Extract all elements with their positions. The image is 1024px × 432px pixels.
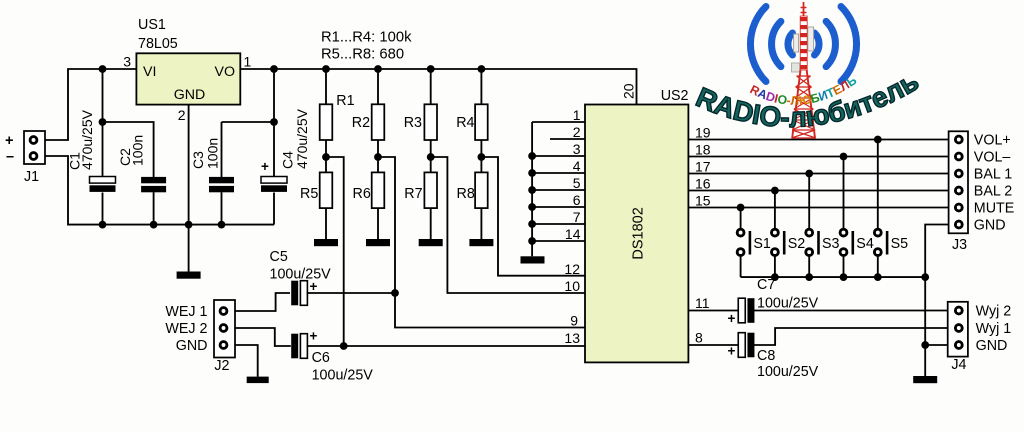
junction: S3 tap — [805, 170, 813, 178]
wire: R2 to R6 — [377, 140, 379, 172]
wire: US2 pin 7 to ground bus — [532, 223, 585, 225]
capacitor C3 100n — [209, 177, 234, 183]
ground symbol (main) — [177, 272, 201, 279]
ground symbol (output side) — [913, 376, 937, 383]
capacitor C2 100n — [141, 177, 166, 183]
wire: S5 to bottom bus — [877, 256, 879, 277]
junction: R4 top on rail — [478, 65, 486, 73]
wire: C4 branch — [273, 69, 275, 177]
junction: pin joins ground bus — [528, 237, 536, 245]
wire: C7 to J4 Wyj 2 — [754, 310, 950, 312]
svg-text:+: + — [261, 159, 269, 174]
svg-text:R2: R2 — [352, 115, 370, 131]
svg-text:8: 8 — [695, 330, 703, 346]
svg-text:15: 15 — [695, 192, 711, 208]
wire: J3 GND down — [925, 225, 948, 377]
resistor R5 680 — [320, 172, 333, 208]
svg-text:C7: C7 — [757, 277, 775, 293]
wire: US2 pin 14 to ground bus — [532, 240, 585, 242]
svg-text:1: 1 — [244, 54, 252, 70]
svg-text:BAL 2: BAL 2 — [974, 184, 1012, 200]
svg-text:18: 18 — [695, 141, 711, 157]
wire: S2 to bottom bus — [774, 256, 776, 277]
svg-text:R4: R4 — [456, 115, 474, 131]
wire: R7 to ground — [430, 208, 432, 239]
junction: pin joins ground bus — [528, 186, 536, 194]
svg-text:7: 7 — [573, 209, 581, 225]
svg-text:J1: J1 — [24, 169, 39, 185]
ground symbol under R7 — [419, 239, 443, 246]
connector J1 — [5, 131, 45, 185]
capacitor C5 (electrolytic) — [291, 281, 298, 306]
ground symbol under R6 — [366, 239, 390, 246]
svg-text:+: + — [310, 329, 318, 344]
wire: US2 pin 4 to ground bus — [532, 172, 585, 174]
svg-text:GND: GND — [174, 87, 206, 103]
wire: J1 - to bottom ground rail — [45, 156, 274, 225]
svg-text:100u/25V: 100u/25V — [312, 368, 374, 384]
junction: switch bus — [805, 273, 813, 281]
svg-text:J4: J4 — [951, 357, 966, 373]
svg-text:VOL+: VOL+ — [974, 133, 1011, 149]
wire: S5 to pin line — [877, 140, 879, 230]
svg-text:+: + — [5, 133, 13, 149]
junction: switch bus — [840, 273, 848, 281]
svg-text:S5: S5 — [891, 236, 909, 252]
junction: C1 bottom — [99, 221, 107, 229]
svg-text:R1...R4: 100k: R1...R4: 100k — [321, 30, 412, 46]
svg-text:14: 14 — [565, 226, 581, 242]
svg-text:16: 16 — [695, 175, 711, 191]
junction: pin joins ground bus — [528, 220, 536, 228]
switch S2 — [772, 229, 806, 255]
junction: divider node R4/R8 — [478, 153, 486, 161]
wire: C6 to US2 pin 13 — [307, 345, 585, 347]
wire: C5 to R2 tap node — [307, 292, 395, 294]
svg-text:DS1802: DS1802 — [631, 207, 647, 259]
wire: US2 pin 15 to J3 — [688, 207, 950, 209]
junction: pin joins ground bus — [528, 152, 536, 160]
resistor R3 100k — [424, 104, 437, 140]
IC US2 DS1802 — [585, 105, 688, 363]
junction: C2 tap on C1 branch — [99, 118, 107, 126]
svg-text:11: 11 — [695, 295, 710, 311]
svg-text:470u/25V: 470u/25V — [79, 109, 95, 170]
svg-text:1: 1 — [573, 107, 581, 123]
junction: R1 top on rail — [322, 65, 330, 73]
wire: rail to R2 — [377, 69, 379, 104]
wire: J2 WEJ2 to C6 — [235, 328, 291, 346]
svg-text:US2: US2 — [661, 88, 689, 104]
junction: GND pin at ground rail — [185, 221, 193, 229]
wire: R4/R8 node to US2 pin 12 — [481, 157, 585, 276]
svg-text:3: 3 — [123, 54, 131, 70]
wire: US2 pin 16 to J3 — [688, 190, 950, 192]
wire: J4 GND to ground line — [925, 344, 948, 346]
wire: S4 to bottom bus — [843, 256, 845, 277]
switch S5 — [874, 229, 908, 255]
wire: R4 to R8 — [480, 140, 482, 172]
svg-text:R7: R7 — [404, 186, 422, 202]
wire: C1 branch — [102, 69, 104, 177]
wire: US1 GND pin 2 down to ground rail — [188, 105, 190, 225]
svg-text:100u/25V: 100u/25V — [270, 267, 332, 283]
junction: C3 bottom — [218, 221, 226, 229]
svg-text:R5: R5 — [300, 186, 318, 202]
svg-text:13: 13 — [564, 330, 580, 346]
wire: R5 to ground — [325, 208, 327, 239]
svg-text:VI: VI — [143, 64, 156, 80]
junction: S1 tap — [737, 204, 745, 212]
svg-text:R8: R8 — [457, 186, 475, 202]
wire: R3 to R7 — [430, 140, 432, 172]
junction: S2 tap — [771, 187, 779, 195]
ground symbol under R8 — [469, 239, 493, 246]
wire: US1 VO to US2 pin 20 (top rail) — [240, 69, 636, 105]
svg-text:Wyj 2: Wyj 2 — [976, 304, 1012, 320]
wire: R8 to ground — [480, 208, 482, 239]
wire: J1 + to US1 VI (top-left rail) — [45, 69, 136, 140]
svg-text:Wyj 1: Wyj 1 — [976, 321, 1012, 337]
wire: US2 pin 1 to ground bus — [532, 121, 585, 123]
resistor R1 100k — [320, 104, 333, 140]
ground symbol (US2 pin bus) — [521, 256, 545, 263]
logo radio waves right — [815, 7, 857, 82]
capacitor C7 (electrolytic) — [747, 298, 754, 323]
resistor R7 680 — [424, 172, 437, 208]
junction: switch bus to GND line — [921, 273, 929, 281]
svg-text:2: 2 — [178, 107, 186, 123]
connector J4 — [948, 302, 1012, 373]
svg-text:WEJ 1: WEJ 1 — [165, 304, 207, 320]
svg-text:S1: S1 — [753, 236, 771, 252]
junction: C4 top on rail — [270, 65, 278, 73]
wire: US2 pin 2 stub (n.c.) — [550, 138, 585, 140]
resistor R2 100k — [372, 104, 385, 140]
wire: R1 to R5 — [325, 140, 327, 172]
svg-text:C8: C8 — [757, 348, 775, 364]
wire: rail to R3 — [430, 69, 432, 104]
junction: divider node R2/R6 — [374, 153, 382, 161]
wire: US2 pin 11 to C7 — [688, 310, 739, 312]
svg-text:100n: 100n — [204, 138, 220, 169]
junction: divider node R1/R5 — [322, 153, 330, 161]
svg-text:VOL–: VOL– — [974, 150, 1011, 166]
svg-text:US1: US1 — [138, 17, 166, 33]
wire: S4 to pin line — [843, 157, 845, 230]
wire: US2 pin 3 to ground bus — [532, 155, 585, 157]
wire: R6 to ground — [377, 208, 379, 239]
svg-text:6: 6 — [573, 192, 581, 208]
junction: pin joins ground bus — [528, 203, 536, 211]
svg-text:–: – — [6, 149, 14, 165]
svg-text:3: 3 — [573, 141, 581, 157]
switch S4 — [840, 229, 874, 255]
junction: C1 top on rail — [99, 65, 107, 73]
wire: ground rail to ground symbol — [188, 225, 190, 272]
junction: pin joins ground bus — [528, 169, 536, 177]
svg-text:2: 2 — [573, 124, 581, 140]
wire: C8 to J4 Wyj 1 — [754, 328, 950, 345]
svg-text:S2: S2 — [788, 236, 806, 252]
junction: switch bus — [771, 273, 779, 281]
svg-text:GND: GND — [974, 218, 1006, 234]
svg-text:GND: GND — [176, 338, 208, 354]
junction: J4 GND joins — [921, 341, 929, 349]
svg-text:MUTE: MUTE — [974, 201, 1015, 217]
svg-text:C5: C5 — [270, 249, 288, 265]
resistor R4 100k — [475, 104, 488, 140]
svg-text:9: 9 — [570, 313, 578, 329]
junction: R3 top on rail — [427, 65, 435, 73]
junction: S4 tap — [840, 153, 848, 161]
svg-text:100n: 100n — [130, 135, 146, 166]
svg-text:470u/25V: 470u/25V — [294, 108, 310, 169]
svg-text:C6: C6 — [312, 350, 330, 366]
wire: US2 pin 6 to ground bus — [532, 206, 585, 208]
junction: R1 tap joins C6/pin13 wire — [340, 342, 348, 350]
wire: S3 to bottom bus — [808, 256, 810, 277]
wire: S1 to pin line — [740, 208, 742, 230]
wire: S3 to pin line — [808, 174, 810, 230]
svg-text:R6: R6 — [353, 186, 371, 202]
capacitor C1 (electrolytic) — [90, 177, 116, 184]
svg-text:WEJ 2: WEJ 2 — [165, 321, 207, 337]
junction: switch bus — [874, 273, 882, 281]
junction: C2 bottom — [150, 221, 158, 229]
svg-text:20: 20 — [621, 83, 637, 99]
svg-text:+: + — [728, 311, 736, 326]
wire: US2 pin 17 to J3 — [688, 173, 950, 175]
wire: S1 to bottom bus — [740, 256, 742, 277]
svg-text:17: 17 — [695, 158, 711, 174]
svg-text:4: 4 — [573, 158, 581, 174]
capacitor C8 (electrolytic) — [747, 333, 754, 358]
svg-text:10: 10 — [564, 278, 580, 294]
wire: R3/R7 node to US2 pin 10 — [431, 157, 585, 293]
resistor R8 680 — [475, 172, 488, 208]
switch S1 — [737, 229, 771, 255]
svg-text:78L05: 78L05 — [138, 36, 178, 52]
wire: R1/R5 node to pin 13 line — [326, 157, 344, 346]
svg-text:+: + — [728, 344, 736, 359]
junction: S5 tap — [874, 136, 882, 144]
svg-text:J3: J3 — [952, 237, 967, 253]
svg-text:S3: S3 — [822, 236, 840, 252]
wire: S2 to pin line — [774, 191, 776, 230]
svg-text:J2: J2 — [214, 358, 229, 374]
wire: US2 pin 19 to J3 — [688, 139, 950, 141]
capacitor C6 (electrolytic) — [291, 334, 298, 359]
voltage regulator US1 78L05 — [136, 17, 240, 105]
wire: rail to R4 — [480, 69, 482, 104]
junction: divider node R3/R7 — [427, 153, 435, 161]
svg-text:100u/25V: 100u/25V — [757, 296, 819, 312]
svg-text:5: 5 — [573, 175, 581, 191]
connector J2 — [165, 300, 235, 374]
wire: C3 branch — [222, 121, 275, 123]
junction: R2 top on rail — [374, 65, 382, 73]
capacitor C4 (electrolytic) — [261, 177, 287, 184]
wire: J2 WEJ1 to C5 — [235, 293, 290, 311]
wire: R2/R6 node to US2 pin 9 — [378, 157, 585, 328]
logo small arc text RADIO-ЛЮБИТЕЛЬ — [748, 73, 862, 108]
svg-text:100u/25V: 100u/25V — [757, 364, 819, 380]
logo radio tower — [792, 2, 816, 138]
wire: ground bus for US2 input pins — [531, 122, 533, 256]
svg-text:R1: R1 — [336, 93, 354, 109]
connector J3 — [949, 131, 1015, 253]
junction: C5 wire joins R2 tap — [391, 289, 399, 297]
svg-text:GND: GND — [976, 338, 1008, 354]
svg-text:VO: VO — [215, 64, 236, 80]
svg-text:R5...R8: 680: R5...R8: 680 — [321, 47, 404, 63]
svg-text:S4: S4 — [856, 236, 874, 252]
svg-text:BAL 1: BAL 1 — [974, 167, 1012, 183]
ground symbol (J2) — [247, 377, 269, 384]
svg-text:19: 19 — [695, 124, 711, 140]
resistor R6 680 — [372, 172, 385, 208]
wire: rail to R1 — [325, 69, 327, 104]
ground symbol under R5 — [314, 239, 338, 246]
wire: US2 pin 8 to C8 — [688, 344, 739, 346]
wire: J2 GND to ground — [235, 345, 258, 377]
wire: US2 pin 18 to J3 — [688, 156, 950, 158]
logo radio waves left — [750, 7, 792, 82]
wire: switch bottom bus — [741, 276, 926, 278]
wire: US2 pin 5 to ground bus — [532, 189, 585, 191]
wire: C2 branch — [103, 122, 154, 177]
switch S3 — [806, 229, 840, 255]
junction: C3 top on C4 branch — [270, 118, 278, 126]
svg-text:12: 12 — [564, 261, 580, 277]
logo big text RADIO-любитель — [692, 65, 925, 133]
svg-text:R3: R3 — [404, 115, 422, 131]
